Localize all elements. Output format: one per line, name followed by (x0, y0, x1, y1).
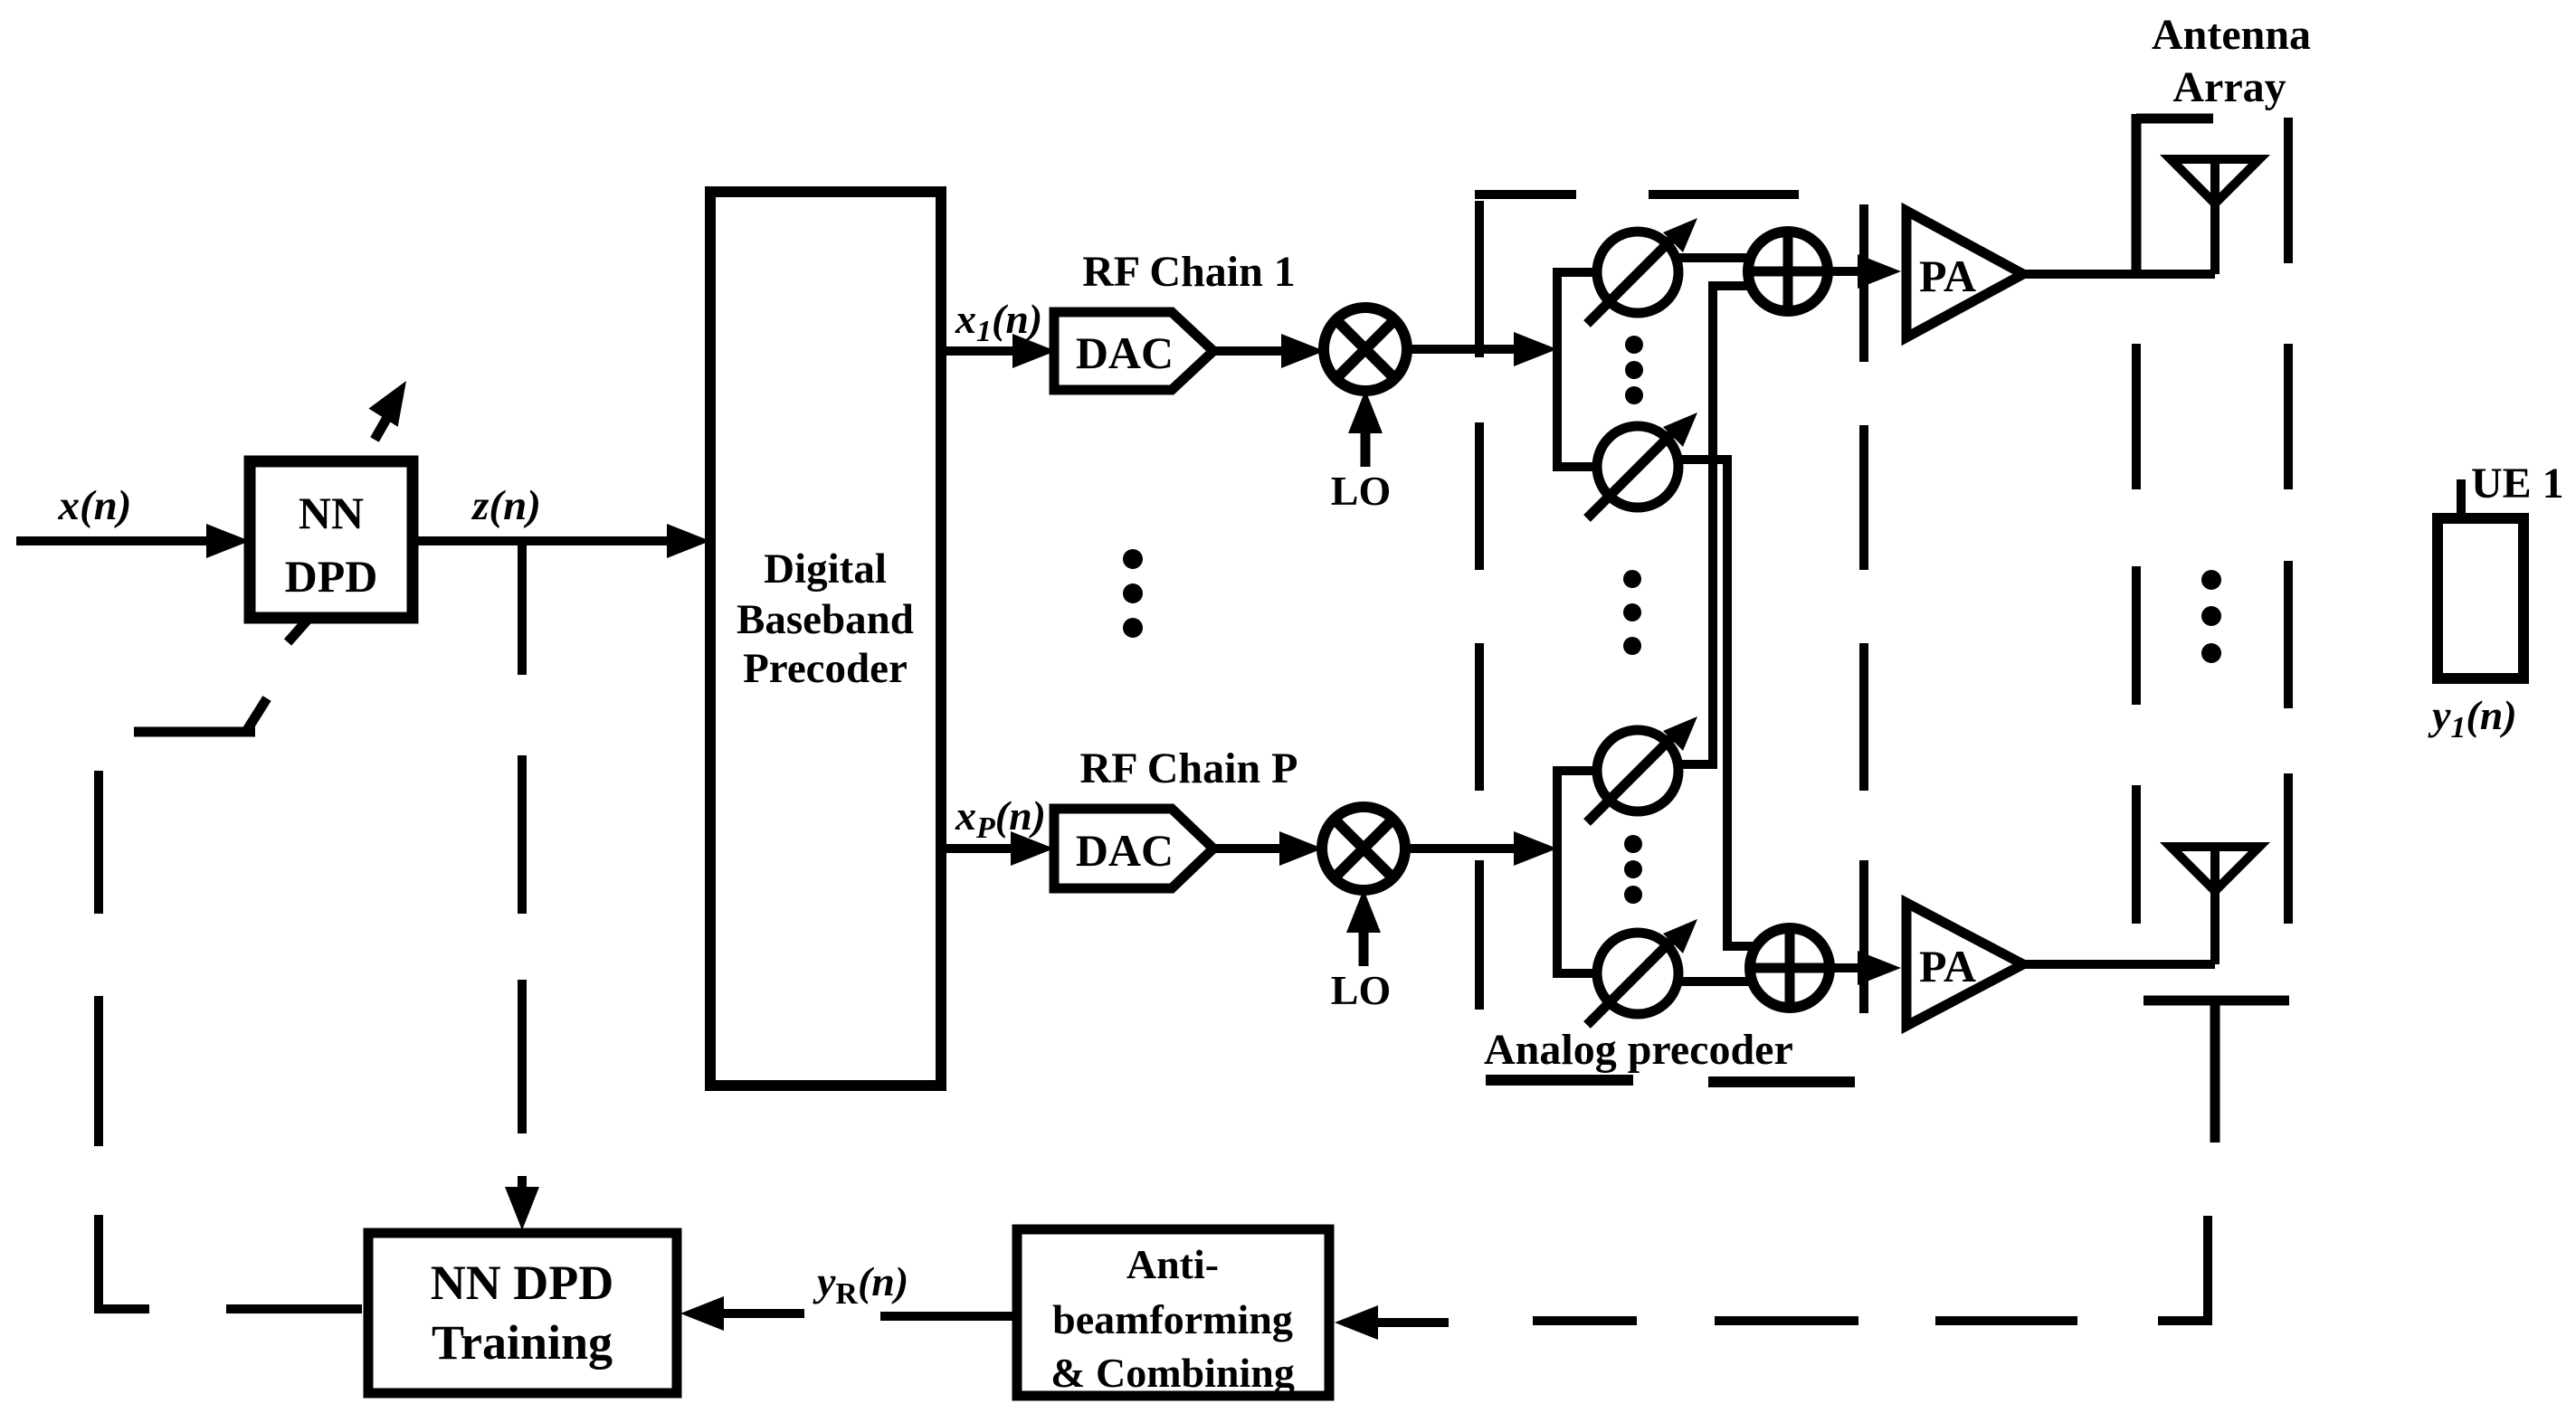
antenna array box top-left corner (2136, 114, 2213, 274)
svg-text:DAC: DAC (1076, 825, 1174, 876)
svg-text:DAC: DAC (1076, 327, 1174, 378)
wire x(n) input (16, 524, 250, 558)
splitter 1 (1553, 272, 1597, 467)
wire z(n) branch down to training (dashed) (505, 541, 539, 1230)
wire DACP to mixer2 (1213, 831, 1323, 866)
svg-text:PA: PA (1919, 251, 1976, 301)
wire summer2 to PA2 (1829, 951, 1901, 985)
wire riser PS3 to summer1 (1677, 286, 1753, 764)
svg-text:NN DPD: NN DPD (431, 1256, 613, 1310)
svg-text:& Combining: & Combining (1050, 1350, 1295, 1396)
mixer 2 (1322, 807, 1405, 890)
wire feedback stem from array (2210, 1000, 2220, 1143)
analog precoder dashed box top border (1475, 190, 1799, 199)
svg-text:Analog precoder: Analog precoder (1484, 1026, 1793, 1074)
dots between RF chains (1123, 549, 1143, 638)
wire mixer1 to splitter1 (1406, 332, 1557, 366)
svg-text:y1(n): y1(n) (2428, 692, 2517, 744)
UE 1 antenna stub (2457, 479, 2466, 520)
svg-text:LO: LO (1331, 967, 1391, 1013)
DAC P (1054, 809, 1213, 888)
svg-text:Baseband: Baseband (737, 596, 914, 643)
dots between PS1 PS2 (1625, 336, 1643, 404)
LO 2 arrow (1346, 889, 1381, 966)
dots between PS3 PS4 (1624, 835, 1642, 904)
mixer 1 (1324, 308, 1407, 391)
antenna 1 (2171, 159, 2259, 274)
LO 1 arrow (1348, 390, 1383, 467)
wire mixer2 to splitter2 (1404, 831, 1557, 866)
amplifier PA2 (1906, 903, 2023, 1026)
amplifier PA1 (1906, 211, 2023, 337)
wire feedback left dashed vertical (99, 771, 362, 1309)
antenna array box right dashes (2284, 118, 2293, 924)
antenna 2 (2171, 847, 2259, 964)
wire PA1 to antenna1 (2023, 270, 2215, 279)
splitter 2 (1553, 771, 1597, 973)
analog precoder dashed box right border (1859, 204, 1868, 1013)
wire DAC1 to mixer1 (1213, 334, 1325, 368)
svg-text:Training: Training (432, 1315, 613, 1370)
block NN DPD Training (368, 1233, 677, 1393)
wire xP(n) (941, 831, 1054, 866)
switch symbol (134, 698, 267, 732)
antenna array box bottom bar (2143, 996, 2289, 1006)
phase shifter PS2 (1587, 413, 1697, 518)
block Digital Baseband Precoder (710, 192, 941, 1086)
wire summer1 to PA1 (1827, 254, 1901, 289)
summer 2 (1750, 928, 1830, 1008)
svg-text:z(n): z(n) (471, 482, 541, 529)
wire feedback bottom dashed (1533, 1216, 2208, 1321)
svg-text:PA: PA (1919, 941, 1976, 991)
svg-text:NN: NN (299, 488, 364, 538)
phase shifter PS1 (1587, 218, 1697, 324)
svg-text:RF Chain P: RF Chain P (1080, 744, 1298, 792)
svg-text:yR(n): yR(n) (813, 1258, 908, 1311)
svg-text:UE 1: UE 1 (2471, 460, 2564, 507)
wire feedback into anti-beamforming (1335, 1305, 1449, 1340)
DAC 1 (1054, 312, 1213, 390)
wire PS1 to summer1 (1678, 253, 1752, 262)
antenna array box left dashes (2132, 344, 2141, 924)
block NN DPD (250, 461, 413, 618)
svg-text:beamforming: beamforming (1052, 1296, 1293, 1342)
NN DPD tuning tick (288, 619, 309, 642)
analog precoder dashed box left border (1475, 201, 1484, 1010)
wire PA2 to antenna2 (2023, 960, 2215, 969)
svg-text:x(n): x(n) (58, 482, 132, 529)
wire PS4 to summer2 (1678, 977, 1752, 986)
NN DPD tuning arrow (368, 372, 421, 440)
dots middle analog precoder (1623, 570, 1641, 655)
phase shifter PS4 (1587, 919, 1697, 1025)
svg-text:Digital: Digital (764, 545, 887, 593)
svg-text:Precoder: Precoder (743, 645, 908, 692)
dots antenna array (2201, 570, 2221, 663)
analog precoder dashed box bottom border (1486, 1080, 1855, 1082)
svg-text:x1(n): x1(n) (955, 296, 1042, 348)
wire riser PS2 to summer2 (1677, 460, 1754, 946)
summer 1 (1748, 232, 1828, 311)
svg-text:RF Chain 1: RF Chain 1 (1082, 248, 1296, 296)
svg-text:Antenna: Antenna (2152, 11, 2311, 59)
phase shifter PS3 (1587, 716, 1697, 822)
wire x1(n) (941, 334, 1056, 368)
UE 1 box (2438, 518, 2524, 678)
svg-text:Anti-: Anti- (1126, 1241, 1219, 1287)
svg-text:xP(n): xP(n) (955, 792, 1046, 845)
svg-text:Array: Array (2172, 63, 2286, 111)
svg-text:LO: LO (1331, 468, 1391, 514)
wire z(n) (413, 524, 710, 558)
block Anti-beamforming and Combining (1017, 1229, 1329, 1396)
wire yR(n) into training (680, 1296, 1017, 1331)
svg-text:DPD: DPD (285, 551, 378, 602)
